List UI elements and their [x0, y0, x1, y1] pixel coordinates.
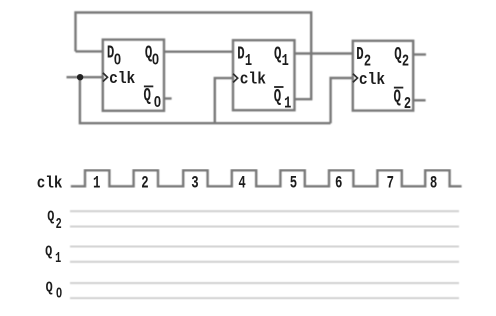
label Q2bar: [394, 87, 412, 114]
svg-text:Q: Q: [394, 45, 402, 65]
svg-text:2: 2: [56, 215, 62, 233]
wire Q2 stub: [413, 53, 426, 55]
wire clk riser U3: [331, 78, 353, 123]
svg-text:Q: Q: [46, 280, 53, 297]
clock edge triangle U3: [353, 74, 358, 83]
wire feedback top (Q1bar to D0): [76, 13, 312, 100]
Q0 level lines: [70, 283, 459, 298]
label D0: [107, 44, 121, 69]
label Q0bar: [144, 86, 162, 111]
wire clk input: [67, 76, 103, 78]
junction node clk: [77, 74, 83, 80]
wire Q1 to D2: [295, 52, 353, 54]
svg-text:clk: clk: [240, 71, 266, 90]
svg-text:D: D: [237, 44, 245, 64]
svg-text:1: 1: [282, 52, 289, 71]
svg-text:5: 5: [290, 174, 297, 194]
svg-text:clk: clk: [109, 70, 135, 89]
svg-text:7: 7: [387, 174, 394, 194]
label Q1 (timing): [45, 244, 61, 267]
svg-text:0: 0: [56, 285, 62, 301]
label Q0 (timing): [46, 280, 63, 302]
label Q2 (timing): [47, 208, 61, 233]
svg-text:1: 1: [55, 249, 61, 267]
label D2: [356, 45, 371, 72]
svg-text:1: 1: [284, 95, 291, 114]
svg-text:clk: clk: [37, 175, 63, 194]
wire Q0bar stub: [164, 97, 172, 99]
wire D0 input: [76, 50, 103, 52]
svg-text:1: 1: [245, 52, 252, 71]
clock edge triangle U2: [233, 74, 238, 83]
Q1 level lines: [70, 247, 459, 262]
svg-text:0: 0: [114, 51, 121, 68]
wire clk bottom bus: [80, 77, 331, 123]
flip-flop U3 box: [353, 41, 413, 111]
svg-text:1: 1: [93, 174, 100, 194]
clock edge triangle U1: [103, 73, 108, 82]
svg-text:2: 2: [404, 95, 411, 114]
label Q2: [394, 45, 409, 72]
wire Q2bar stub: [413, 99, 425, 101]
flip-flop U2 box: [233, 40, 295, 110]
label Q0: [145, 44, 159, 69]
svg-text:Q: Q: [274, 87, 282, 107]
label Q1bar: [274, 87, 292, 114]
svg-text:0: 0: [154, 94, 161, 111]
svg-text:6: 6: [335, 174, 342, 194]
svg-text:2: 2: [402, 53, 409, 72]
svg-text:clk: clk: [359, 71, 385, 90]
svg-text:2: 2: [364, 53, 371, 72]
Q2 level lines: [70, 211, 459, 226]
svg-text:Q: Q: [144, 86, 152, 106]
label D1: [237, 44, 252, 71]
svg-text:D: D: [356, 45, 364, 65]
label Q1: [274, 44, 289, 71]
flip-flop U1 box: [103, 40, 164, 111]
wire Q0 to D1: [164, 51, 233, 53]
svg-text:4: 4: [238, 174, 245, 194]
svg-text:2: 2: [141, 174, 148, 194]
svg-text:Q: Q: [394, 87, 402, 107]
wire clk riser U2: [215, 78, 233, 123]
svg-text:Q: Q: [47, 208, 54, 225]
svg-text:8: 8: [430, 174, 437, 194]
svg-text:0: 0: [152, 51, 159, 68]
svg-text:Q: Q: [274, 44, 282, 64]
clk waveform: [71, 170, 462, 186]
svg-text:Q: Q: [45, 244, 52, 261]
svg-text:3: 3: [191, 174, 198, 194]
